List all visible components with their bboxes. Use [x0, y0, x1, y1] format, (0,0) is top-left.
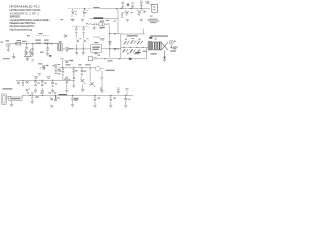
svg-text:http://openhpsdr.org: http://openhpsdr.org [10, 28, 33, 32]
